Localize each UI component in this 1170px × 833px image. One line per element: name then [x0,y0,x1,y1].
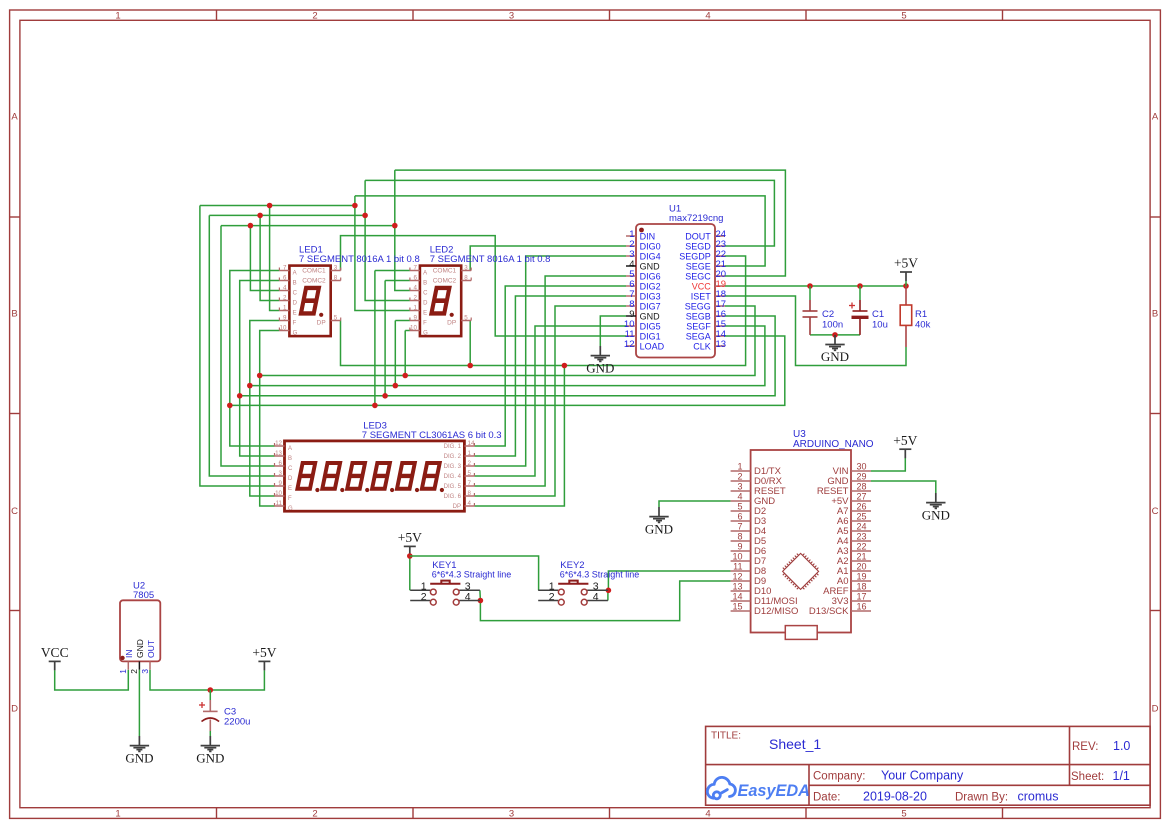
svg-text:4: 4 [705,10,710,21]
wire net G to LED2.G [405,330,410,332]
svg-text:D: D [1152,704,1159,715]
svg-text:DIG1: DIG1 [640,332,661,342]
svg-text:B: B [1152,309,1158,320]
svg-text:9: 9 [283,314,287,321]
wire net D to LED2.D [365,180,410,300]
svg-text:A: A [11,112,18,123]
7-segment display LED1 [279,244,419,336]
svg-text:E: E [288,486,292,492]
svg-text:8: 8 [737,532,742,542]
svg-text:SEGD: SEGD [685,242,711,252]
svg-text:Drawn By:: Drawn By: [955,792,1008,804]
svg-text:6: 6 [283,274,287,281]
wire net DIG6 to LED3.DIG5 [474,276,626,486]
svg-text:4: 4 [593,591,599,603]
svg-text:DIG7: DIG7 [640,302,661,312]
ground U2 [130,736,149,751]
wire net DP LED2 drop [469,321,471,366]
svg-text:3: 3 [334,264,338,271]
svg-text:DOUT: DOUT [685,232,711,242]
svg-text:SEGB: SEGB [686,312,711,322]
wire KEY2 tie 3-4 [607,590,609,600]
wire net B LED2 drop [384,281,386,396]
wire net DIG0 LED2.COMC1 to U1.DIG0 [470,246,626,271]
IC U2 7805 [118,581,160,674]
IC U3 ARDUINO_NANO [731,429,874,633]
wire net G LED2 drop [404,331,406,376]
svg-text:D: D [423,301,428,307]
svg-text:7: 7 [737,522,742,532]
node F-LED2 [393,383,399,389]
U3 usb connector [785,626,817,640]
wire net D to LED1.D [260,215,279,300]
wire net DIG5 to LED3.DIG4 [474,326,626,476]
svg-text:1: 1 [413,304,417,311]
ground C3 [201,736,220,751]
svg-text:DP: DP [447,320,456,327]
svg-text:ISET: ISET [691,292,712,302]
node KEY2.3 [606,588,612,594]
wire net G to U1.SEGG [260,306,755,376]
svg-text:23: 23 [857,532,867,542]
svg-text:Your Company: Your Company [881,769,964,783]
svg-text:SEGC: SEGC [685,272,711,282]
node E-LED2 [352,203,358,209]
wire net C to LED2.C [395,170,410,290]
svg-text:D12/MISO: D12/MISO [754,606,798,617]
svg-text:18: 18 [857,582,867,592]
svg-text:12: 12 [624,339,635,350]
node A-bus [227,403,233,409]
svg-text:DIG3: DIG3 [640,292,661,302]
svg-text:13: 13 [275,450,282,457]
svg-text:5: 5 [901,808,906,819]
svg-text:10: 10 [280,324,287,331]
ground caps [825,335,844,350]
push button KEY1 [410,560,511,605]
node D-LED2 [362,213,368,219]
wire U2.GND down [138,670,140,736]
svg-text:4: 4 [413,284,417,291]
node F-bus [247,383,253,389]
svg-text:Company:: Company: [813,771,865,783]
IC U1 max7219cng [624,204,726,358]
wire KEY2 to D8 [608,571,730,590]
wire net DIG3 to LED3.DIG2 [474,296,626,456]
svg-text:3: 3 [279,470,283,477]
svg-text:GND: GND [135,639,145,658]
svg-text:DIG. 3: DIG. 3 [444,464,462,470]
svg-text:21: 21 [857,552,867,562]
svg-text:12: 12 [732,572,742,582]
svg-text:G: G [288,506,293,512]
svg-text:15: 15 [732,602,742,612]
svg-text:1: 1 [118,669,128,674]
svg-text:DP: DP [317,320,326,327]
wire net F to U1.SEGF [250,326,765,386]
EasyEDA logo [707,777,735,798]
svg-text:GND: GND [586,360,614,375]
svg-text:10: 10 [410,324,417,331]
svg-text:40k: 40k [915,319,931,330]
wire net DIG7 to LED3.DIG6 [474,306,626,496]
svg-text:3: 3 [464,264,468,271]
svg-text:2019-08-20: 2019-08-20 [863,790,927,804]
svg-text:D13/SCK: D13/SCK [809,606,849,617]
svg-text:20: 20 [857,562,867,572]
svg-text:5: 5 [334,314,338,321]
svg-text:2: 2 [129,669,139,674]
wire net B LED1-LED3 [240,281,280,457]
svg-text:B: B [423,281,427,287]
svg-text:17: 17 [857,592,867,602]
wire net A LED2 drop [374,271,376,406]
svg-text:3: 3 [509,808,514,819]
svg-text:4: 4 [705,808,710,819]
svg-text:TITLE:: TITLE: [711,731,741,742]
push button KEY2 [538,560,639,605]
wire net DP to LED3.DP [474,366,564,507]
capacitor C1 [852,300,869,335]
wire net E to LED3.E [200,206,275,487]
svg-text:COMC2: COMC2 [302,278,326,285]
node G-LED2 [402,373,408,379]
wire net D to LED3.D [209,215,274,476]
svg-text:C: C [11,506,18,517]
svg-text:24: 24 [857,522,867,532]
svg-text:C: C [423,291,428,297]
wire C3 bottom lead [209,731,211,736]
node DP-LED2 [467,363,473,369]
svg-text:1: 1 [115,808,120,819]
svg-text:EasyEDA: EasyEDA [738,782,810,800]
svg-text:GND: GND [196,750,224,765]
svg-text:4: 4 [468,500,472,507]
svg-text:SEGA: SEGA [686,332,711,342]
wire R1 bottom to U1.ISET [725,296,906,366]
svg-text:7: 7 [283,264,287,271]
svg-text:B: B [11,309,17,320]
7-segment display LED3 [275,421,502,513]
svg-text:2: 2 [413,294,417,301]
svg-text:7 SEGMENT 8016A 1 bit 0.8: 7 SEGMENT 8016A 1 bit 0.8 [430,254,551,265]
svg-text:DIG. 2: DIG. 2 [444,454,462,460]
node C-LED2 [392,223,398,229]
svg-text:SEGF: SEGF [686,322,711,332]
svg-text:4: 4 [283,284,287,291]
wire net E to U1.SEGE [355,196,765,266]
wire VCC to U2.IN [55,670,129,690]
wire C1 top lead [859,286,861,300]
svg-text:+5V: +5V [894,256,918,271]
svg-text:5: 5 [468,470,472,477]
wire net DIG1 LED1.COMC1 to U1.DIG1 [341,236,627,336]
svg-text:E: E [293,311,297,317]
svg-text:A: A [423,271,427,277]
capacitor C2 [803,300,818,335]
svg-text:CLK: CLK [693,342,711,352]
svg-text:6*6*4.3 Straight line: 6*6*4.3 Straight line [560,569,640,579]
svg-text:2: 2 [737,472,742,482]
svg-text:7805: 7805 [133,590,154,601]
U3 chip glyph [783,553,819,589]
svg-text:DIG5: DIG5 [640,322,661,332]
svg-text:1: 1 [115,10,120,21]
wire caps bottom [810,334,860,336]
wire net G LED1-LED3 [260,331,280,507]
svg-text:7: 7 [468,480,472,487]
svg-text:6: 6 [413,274,417,281]
node C3 top [208,687,214,693]
svg-text:G: G [293,331,298,337]
svg-text:8: 8 [468,490,472,497]
svg-text:B: B [288,456,292,462]
svg-text:C: C [293,291,298,297]
node C-LED1 [248,223,254,229]
svg-text:A: A [293,271,297,277]
wire +5V to KEY1.1 [409,555,411,590]
svg-text:B: B [293,281,297,287]
svg-text:5: 5 [464,314,468,321]
svg-text:+5V: +5V [398,530,422,545]
svg-text:5: 5 [901,10,906,21]
svg-text:14: 14 [732,592,742,602]
svg-text:2: 2 [549,591,555,603]
svg-text:1: 1 [468,450,472,457]
svg-text:COMC2: COMC2 [433,278,457,285]
svg-text:F: F [293,321,297,327]
svg-text:6*6*4.3 Straight line: 6*6*4.3 Straight line [432,569,512,579]
svg-text:1: 1 [737,462,742,472]
svg-text:GND: GND [640,312,661,322]
svg-text:GND: GND [125,750,153,765]
svg-text:SEGE: SEGE [686,262,711,272]
wire net C to LED3.C [221,226,275,466]
svg-text:Date:: Date: [813,792,841,804]
svg-text:1.0: 1.0 [1113,739,1130,753]
svg-text:F: F [288,496,292,502]
svg-text:6: 6 [737,512,742,522]
svg-text:A: A [288,446,292,452]
wire net A to U1.SEGA [230,336,785,405]
svg-text:SEGG: SEGG [685,302,711,312]
wire net F LED2 drop [394,321,396,386]
svg-text:1: 1 [283,304,287,311]
node E-LED1 [267,203,273,209]
svg-text:19: 19 [857,572,867,582]
wire net B to U1.SEGB [240,316,775,396]
wire U2.OUT to +5V [150,670,264,690]
wire net E to LED2.E [355,196,410,311]
title block [706,726,1151,805]
svg-text:11: 11 [733,562,742,572]
svg-text:DP: DP [453,504,461,510]
svg-text:2: 2 [421,591,427,603]
svg-text:7: 7 [413,264,417,271]
svg-text:D: D [288,476,293,482]
svg-text:2: 2 [283,294,287,301]
node G-bus [257,373,263,379]
svg-text:2200u: 2200u [224,717,250,728]
svg-text:ARDUINO_NANO: ARDUINO_NANO [793,439,874,450]
svg-text:2: 2 [312,808,317,819]
svg-text:OUT: OUT [146,640,156,658]
svg-text:3: 3 [737,482,742,492]
ground arduino left [649,507,668,522]
svg-text:4: 4 [737,492,742,502]
svg-text:Sheet_1: Sheet_1 [769,736,821,752]
wire +5V rail U1 [725,285,906,287]
wire net B to LED2.B [385,280,410,282]
wire C3 top lead [209,690,211,700]
node +5V keys [407,553,413,559]
svg-text:REV:: REV: [1072,741,1098,753]
wire net C top bus [221,225,395,227]
svg-text:9: 9 [737,542,742,552]
svg-text:G: G [423,331,428,337]
svg-text:13: 13 [732,582,742,592]
svg-text:10: 10 [732,552,742,562]
wire GND29 wire [871,481,936,493]
node A-LED2 [372,403,378,409]
node C2 top [807,283,813,289]
ground arduino right [926,493,945,508]
svg-text:GND: GND [821,349,849,364]
svg-text:DIG. 4: DIG. 4 [444,474,462,480]
wire net E top bus [200,205,355,207]
svg-text:+5V: +5V [893,433,917,448]
svg-text:10: 10 [275,490,282,497]
svg-text:DIN: DIN [640,232,656,242]
wire net C to U1.SEGC [395,170,786,276]
wire net D top bus [209,214,365,216]
wire stub +5V U1 [905,281,907,286]
wire net D to U1.SEGD [365,180,774,246]
svg-text:28: 28 [857,482,867,492]
svg-text:IN: IN [124,650,134,659]
capacitor C3 [202,700,220,731]
svg-text:10u: 10u [872,319,888,330]
svg-text:DIG. 1: DIG. 1 [444,444,462,450]
svg-text:LOAD: LOAD [640,342,665,352]
svg-text:F: F [423,321,427,327]
svg-text:cromus: cromus [1018,790,1059,804]
ground U1 [591,346,610,361]
node cap gnd [832,332,838,338]
svg-text:26: 26 [857,502,867,512]
svg-text:7 SEGMENT 8016A 1 bit 0.8: 7 SEGMENT 8016A 1 bit 0.8 [299,254,420,265]
node B-bus [237,393,243,399]
svg-text:SEGDP: SEGDP [679,252,711,262]
node R1 top [903,283,909,289]
wire net DIG2 to LED3.DIG1 [474,286,626,446]
svg-text:30: 30 [857,462,867,472]
svg-text:3: 3 [509,10,514,21]
svg-text:GND: GND [640,262,661,272]
svg-text:16: 16 [857,602,867,612]
node KEY1.4 [478,598,484,604]
svg-text:27: 27 [857,492,867,502]
svg-text:2: 2 [468,460,472,467]
node DP-LED3 [562,363,568,369]
svg-text:DIG4: DIG4 [640,252,661,262]
svg-text:29: 29 [857,472,867,482]
svg-text:GND: GND [922,507,950,522]
wire net DP LED1 to U1.SEGDP [341,256,746,366]
node B-LED2 [382,393,388,399]
wire +5V to KEY2.1 [410,556,539,590]
svg-text:DIG0: DIG0 [640,242,661,252]
svg-text:6: 6 [279,460,283,467]
svg-text:8: 8 [464,274,468,281]
svg-text:COMC1: COMC1 [433,268,457,275]
svg-text:5: 5 [737,502,742,512]
wire net F LED1-LED3 [250,321,280,497]
svg-text:8: 8 [334,274,338,281]
svg-text:E: E [423,311,427,317]
wire net DIG4 to LED3.DIG3 [474,256,626,466]
wire U1 pin9 to GND [600,316,626,346]
svg-text:3: 3 [140,669,150,674]
wire net A LED1-LED3 [230,271,280,447]
svg-text:22: 22 [857,542,867,552]
node D-LED1 [257,213,263,219]
svg-text:14: 14 [468,440,475,447]
svg-text:9: 9 [279,480,283,487]
svg-text:Sheet:: Sheet: [1071,771,1104,783]
node C1 top [857,283,863,289]
svg-text:2: 2 [312,10,317,21]
svg-text:DIG2: DIG2 [640,282,661,292]
svg-text:GND: GND [645,521,673,536]
svg-text:A: A [1152,112,1159,123]
svg-text:25: 25 [857,512,867,522]
svg-text:DIG. 6: DIG. 6 [444,494,462,500]
wire net E to LED1.E [270,206,280,311]
wire VIN to +5V [871,458,905,471]
svg-text:13: 13 [716,339,727,350]
svg-text:max7219cng: max7219cng [669,213,723,224]
wire net C to LED1.C [250,226,279,291]
7-segment display LED2 [410,244,551,336]
svg-text:D: D [293,301,298,307]
resistor R1 [905,286,907,305]
svg-text:11: 11 [276,500,283,507]
wire C2 top lead [809,286,811,300]
wire KEY1 to D9 [480,581,731,621]
svg-text:4: 4 [465,591,471,603]
wire GND4 wire [659,501,731,507]
svg-text:DIG6: DIG6 [640,272,661,282]
svg-text:VCC: VCC [692,282,712,292]
svg-text:VCC: VCC [41,645,69,660]
svg-text:1/1: 1/1 [1113,769,1130,783]
svg-text:+5V: +5V [252,645,276,660]
svg-text:12: 12 [275,440,282,447]
svg-text:C: C [288,466,293,472]
svg-text:DIG. 5: DIG. 5 [444,484,462,490]
wire net F to LED2.F [395,320,410,322]
svg-text:100n: 100n [822,319,843,330]
svg-text:C: C [1152,506,1159,517]
wire net A to LED2.A [375,270,410,272]
svg-text:D: D [11,704,18,715]
svg-text:COMC1: COMC1 [302,268,326,275]
svg-text:9: 9 [413,314,417,321]
